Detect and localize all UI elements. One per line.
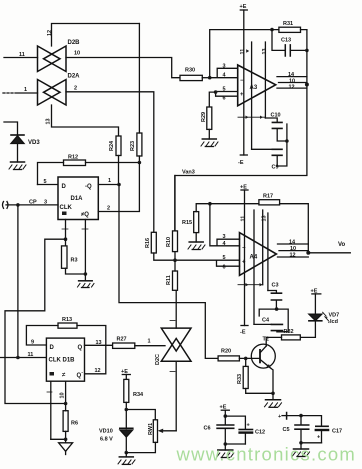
wire: R34 bottom xyxy=(125,402,127,409)
svg-text:R13: R13 xyxy=(62,317,72,323)
wire: A3 input pins 3/4 bracket xyxy=(210,68,238,77)
svg-text:R27: R27 xyxy=(117,337,127,343)
wire: A3 output rail down, across, and up to R10 (Van3 net) xyxy=(175,30,307,231)
wire: stub above join xyxy=(286,124,288,141)
wire: R12 net (to D pin of D1A and to R23 bottom) xyxy=(38,163,140,185)
wire: R13 loop from Q-bar 12 to D pin 9 of D1B xyxy=(26,326,105,374)
svg-text:C6: C6 xyxy=(204,426,211,432)
ground (VD10) xyxy=(118,453,135,465)
wire: R27 to D2C control xyxy=(135,345,165,347)
svg-text:C13: C13 xyxy=(281,38,291,44)
capacitor C6 xyxy=(204,416,234,444)
wire: R33 leads to emitter node xyxy=(246,358,273,393)
wire: T2 emitter down xyxy=(272,369,273,393)
svg-text:10: 10 xyxy=(74,51,80,57)
wire: R15 from feedback node xyxy=(196,204,210,242)
svg-text:Van3: Van3 xyxy=(182,170,195,176)
svg-text:11: 11 xyxy=(240,49,246,55)
resistor R27 xyxy=(113,337,135,349)
resistor R29 xyxy=(201,107,212,129)
ground (D1A reset) xyxy=(78,274,95,288)
arrow marks on A4 power pins xyxy=(238,284,263,286)
svg-text:12: 12 xyxy=(289,85,295,91)
wire: VD3 to ground xyxy=(17,144,19,163)
svg-text:C10: C10 xyxy=(271,113,281,119)
node: R34/VD10/RW1 junction xyxy=(125,408,129,412)
wire: A4 feedback down to inverting input xyxy=(210,204,217,246)
svg-text:-E: -E xyxy=(240,330,246,336)
wire: D input of D1A xyxy=(38,184,59,186)
svg-text:+: + xyxy=(317,435,320,441)
capacitor C9 xyxy=(252,141,287,171)
ground (R29) xyxy=(201,139,218,147)
node: R3 top junction xyxy=(64,237,68,241)
resistor R31 xyxy=(279,21,301,32)
op-amp A4 power rail +E xyxy=(240,185,248,326)
svg-text:14: 14 xyxy=(288,72,295,78)
node: C3/C4 join xyxy=(275,307,279,311)
node: R23/R12/Q2 junction xyxy=(138,161,142,165)
svg-text:CLK D1B: CLK D1B xyxy=(49,358,76,364)
ground (R15) xyxy=(188,242,205,250)
svg-text:11: 11 xyxy=(28,352,34,358)
potentiometer RW1 xyxy=(126,410,176,453)
wire: to R29 xyxy=(209,92,215,107)
terminal CP input xyxy=(3,202,9,209)
flip-flop D1B xyxy=(46,338,84,381)
svg-text:R32: R32 xyxy=(284,329,294,335)
wire: C5/C17 bottom join xyxy=(301,442,322,444)
capacitor C10 xyxy=(265,113,287,142)
terminal +E (C5/C17) xyxy=(278,413,287,421)
wire: D2B control pin 12 up and right to R23 xyxy=(52,24,140,47)
svg-text:6: 6 xyxy=(223,265,226,271)
resistor R34 xyxy=(124,375,144,403)
svg-text:R15: R15 xyxy=(182,220,192,226)
wire: R31 leads xyxy=(272,29,307,31)
pin tick 3 xyxy=(170,371,175,373)
resistor R24 xyxy=(109,136,121,156)
svg-text:D: D xyxy=(50,345,55,351)
svg-text:11: 11 xyxy=(19,52,25,58)
resistor R17 xyxy=(259,194,280,205)
node: Q1 junction with R24 xyxy=(117,183,121,187)
svg-text:10: 10 xyxy=(290,246,296,252)
resistor R12 xyxy=(64,155,86,166)
wire: D2C bottom to RW1 wiper xyxy=(175,361,177,431)
svg-text:9: 9 xyxy=(31,340,34,346)
svg-text:+: + xyxy=(242,260,246,266)
flip-flop D1A xyxy=(58,177,98,220)
wire: D1A reset pin stub xyxy=(84,220,86,275)
wire: A4 outputs 14/10/12 xyxy=(278,244,309,257)
svg-text:−: − xyxy=(240,78,244,84)
svg-text:R6: R6 xyxy=(71,421,78,427)
op-amp A4 xyxy=(240,233,277,276)
analog switch D2A xyxy=(38,74,81,106)
svg-text:C9: C9 xyxy=(272,165,279,171)
capacitor C13 xyxy=(272,30,307,56)
node: bottom join xyxy=(299,441,303,445)
capacitor C17 (electrolytic) xyxy=(316,426,342,443)
wire: D2A control pin 13 down then right to R24 xyxy=(52,105,119,136)
resistor R16 xyxy=(145,232,156,253)
svg-text:VD3: VD3 xyxy=(28,140,40,146)
capacitor C5 xyxy=(283,416,309,443)
wire: R6 leads xyxy=(51,404,66,440)
node: CP rail to CLK11 xyxy=(16,356,20,360)
wire: R24 lead down to Q1 node xyxy=(118,156,120,185)
node: A3 output join xyxy=(305,83,309,87)
svg-text:-Q: -Q xyxy=(85,184,92,190)
svg-text:CP: CP xyxy=(29,200,37,206)
resistor R20 xyxy=(218,349,239,361)
svg-text:R29: R29 xyxy=(201,112,207,122)
wire: A3 outputs 14/10/12 xyxy=(277,77,307,89)
svg-text:R24: R24 xyxy=(109,140,115,151)
svg-text:3: 3 xyxy=(223,64,226,70)
wire: VD7 to R32 xyxy=(300,321,315,338)
wire: set-node loop to D1B section xyxy=(5,239,66,403)
svg-text:T2: T2 xyxy=(263,337,269,343)
node: R3/reset ground junction xyxy=(84,272,88,276)
svg-text:10: 10 xyxy=(289,78,295,84)
capacitor C12 (electrolytic) xyxy=(239,423,265,445)
node: VD10 bottom xyxy=(125,451,129,455)
svg-text:3: 3 xyxy=(44,200,47,206)
svg-text:+: + xyxy=(247,423,250,429)
svg-text:13: 13 xyxy=(96,340,102,346)
diode VD3 xyxy=(11,135,40,146)
svg-text:1: 1 xyxy=(24,87,27,93)
svg-text:www.cntronics.com: www.cntronics.com xyxy=(176,444,357,465)
wire: D1A Q-bar pin 2 to R23 node xyxy=(98,163,139,212)
node: C13 right on output rail xyxy=(305,49,309,53)
wire: A3 feedback from node up and right xyxy=(210,30,272,78)
node: emitter/ground xyxy=(271,392,275,396)
node: R31/C13 left xyxy=(270,28,274,32)
wire: D1A Q pin 1 output xyxy=(98,184,119,186)
svg-text:−: − xyxy=(242,246,246,252)
wire: D1B reset stub xyxy=(65,381,67,403)
wire: terminal to caps xyxy=(287,415,301,417)
svg-text:D2B: D2B xyxy=(68,40,81,46)
wire: R30 to inverting input node xyxy=(202,77,209,79)
node: C10/C9 join xyxy=(285,139,289,143)
svg-text:10: 10 xyxy=(60,392,66,398)
svg-text:12: 12 xyxy=(47,30,53,36)
svg-text:C3: C3 xyxy=(272,283,279,289)
svg-text:A3: A3 xyxy=(250,85,258,91)
node: CP rail junction xyxy=(16,203,20,207)
svg-text:13: 13 xyxy=(46,118,52,124)
svg-text:Qˊ: Qˊ xyxy=(77,373,84,379)
node: R6 bottom xyxy=(64,438,68,442)
op-amp A3 xyxy=(238,65,276,106)
wire: A4 input pins 5/6 bracket xyxy=(217,260,240,266)
wire: D2C top to R11 xyxy=(175,290,177,328)
op-amp A3 power pin lines xyxy=(252,42,266,149)
capacitor C4 xyxy=(254,309,288,332)
svg-text:1: 1 xyxy=(108,178,111,184)
resistor R10 xyxy=(166,231,178,252)
wire: D1B Q pin 13 to R27 xyxy=(85,344,113,346)
capacitor C3 xyxy=(268,283,282,310)
svg-text:R30: R30 xyxy=(185,68,195,74)
ground (T2 emitter) xyxy=(265,393,282,407)
wire: CP rail down to D1B CLK xyxy=(17,205,19,358)
op-amp A4 power pin lines xyxy=(254,210,268,324)
svg-text:D1A: D1A xyxy=(71,196,84,202)
svg-text:C17: C17 xyxy=(332,429,342,435)
node: C5 top xyxy=(299,414,303,418)
svg-text:Q: Q xyxy=(78,345,83,351)
svg-text:2: 2 xyxy=(107,206,110,212)
svg-text:13: 13 xyxy=(262,48,268,54)
svg-text:≠Q: ≠Q xyxy=(81,212,89,218)
resistor R23 xyxy=(130,133,142,156)
node: bottom join xyxy=(224,442,228,446)
resistor R13 xyxy=(58,317,77,328)
svg-text:Icd: Icd xyxy=(330,319,338,325)
svg-text:5: 5 xyxy=(223,255,226,261)
terminal +E (C6/C12) xyxy=(220,405,230,411)
svg-text:1: 1 xyxy=(148,339,151,345)
wire: input pin 1 lead to D2A (dashed at left) xyxy=(3,92,15,94)
svg-text:R3: R3 xyxy=(71,258,78,264)
svg-text:5: 5 xyxy=(44,179,47,185)
analog switch D2B xyxy=(38,40,81,72)
resistor R3 xyxy=(62,246,78,268)
svg-text:R11: R11 xyxy=(166,275,172,285)
wire: CLK pin 11 of D1B xyxy=(0,357,46,359)
pin tick marks xyxy=(62,228,88,230)
node: A4 output join xyxy=(306,251,310,255)
resistor R11 xyxy=(166,271,178,290)
ground (VD3) xyxy=(9,162,26,170)
wire: R16 bottom to A4 +input rail xyxy=(154,253,217,260)
wire: R29 to ground xyxy=(208,129,210,139)
wire: R3 leads to ground node xyxy=(66,239,86,274)
svg-text:VD7: VD7 xyxy=(329,313,340,319)
svg-text:12: 12 xyxy=(290,253,296,259)
wire: Q1 route down and across to R20 xyxy=(119,185,218,359)
wire: C6/C12 bottom join xyxy=(225,443,245,445)
wire: D1A set pin stub xyxy=(65,220,67,240)
wire: CP to CLK pin 3 of D1A xyxy=(6,204,58,206)
node: C6/C12 top xyxy=(224,414,228,418)
resistor R30 xyxy=(180,68,202,81)
wire: R32 to T2 collector xyxy=(266,337,281,346)
svg-text:5: 5 xyxy=(223,87,226,93)
wire: +E to caps xyxy=(224,410,226,416)
pin tick 4 xyxy=(170,320,175,322)
resistor R33 xyxy=(237,366,248,388)
wire: R11 top lead xyxy=(174,260,176,271)
wire: D2B pin 10 output to R30 xyxy=(66,58,180,78)
svg-text:R33: R33 xyxy=(237,374,243,384)
wire: R10 leads xyxy=(174,176,176,261)
svg-text:R23: R23 xyxy=(130,141,136,151)
wire: Vo output xyxy=(308,252,350,254)
svg-text:6.8 V: 6.8 V xyxy=(100,437,113,443)
terminal +E (VD7) xyxy=(311,289,321,295)
wire: A4 feedback wire to output rail xyxy=(210,204,308,253)
svg-text:R34: R34 xyxy=(133,392,144,398)
svg-text:C4: C4 xyxy=(262,318,270,324)
svg-text:6: 6 xyxy=(223,96,226,102)
terminal +E (R34) xyxy=(121,369,130,375)
svg-text:D: D xyxy=(62,184,67,190)
svg-text:C5: C5 xyxy=(283,427,290,433)
wire: A3 input pins 5/6 bracket xyxy=(216,92,238,97)
svg-text:+E: +E xyxy=(240,4,247,10)
transistor T2 xyxy=(251,337,275,369)
svg-text:R20: R20 xyxy=(221,349,231,355)
svg-text:R10: R10 xyxy=(166,237,172,247)
wire: stub left of join xyxy=(259,309,276,316)
ground (R6, triangle style) xyxy=(59,439,73,454)
svg-text:R16: R16 xyxy=(145,238,151,248)
svg-text:R31: R31 xyxy=(283,21,293,27)
label -E (A4) xyxy=(240,326,248,336)
LED VD7 xyxy=(309,294,339,325)
label -E (A3) xyxy=(238,155,247,166)
arrow marks on A3 power pins xyxy=(238,116,265,118)
svg-text:D2A: D2A xyxy=(68,74,81,80)
ground (C6/C12) xyxy=(217,444,234,458)
svg-text:-E: -E xyxy=(238,160,244,166)
resistor R15 xyxy=(182,212,199,233)
op-amp A3 power rail +E xyxy=(240,4,248,155)
resistor R32 xyxy=(282,329,301,340)
wire: input pin 11 lead to D2B xyxy=(4,57,38,59)
svg-text:+: + xyxy=(240,92,244,98)
node: +input junction xyxy=(173,258,177,262)
resistor R6 xyxy=(63,411,78,432)
wire: stub to diode VD3 xyxy=(4,122,18,135)
wire: R23 leads xyxy=(138,24,140,163)
wire: D1B set stub down xyxy=(50,381,52,439)
svg-text:D2C: D2C xyxy=(155,354,161,365)
svg-text:11: 11 xyxy=(241,216,247,222)
svg-text:12: 12 xyxy=(95,368,101,374)
svg-text:+: + xyxy=(278,414,281,420)
svg-text:Vo: Vo xyxy=(338,242,346,248)
wire: R20 to T2 base xyxy=(239,357,260,359)
svg-text:13: 13 xyxy=(262,215,268,221)
svg-text:R12: R12 xyxy=(68,155,78,161)
ground (C5/C17) xyxy=(293,443,310,457)
svg-text:C12: C12 xyxy=(255,430,265,436)
svg-text:3: 3 xyxy=(223,234,226,240)
svg-text:RW1: RW1 xyxy=(148,423,154,435)
analog switch D2C (vertical) xyxy=(155,328,191,365)
wire: D2A pin 2 output right then down to R16 xyxy=(66,92,154,233)
node: A4 feedback node xyxy=(208,202,212,206)
zener VD10 xyxy=(99,410,133,453)
svg-text:2: 2 xyxy=(74,86,77,92)
node: R20/R33 junction xyxy=(244,357,248,361)
pin tick xyxy=(47,391,52,393)
svg-text:CLK: CLK xyxy=(60,205,73,211)
svg-text:VD10: VD10 xyxy=(99,429,113,435)
wire: A4 input pins 3/4 bracket xyxy=(217,239,240,246)
svg-text:R17: R17 xyxy=(263,194,273,200)
svg-text:A4: A4 xyxy=(250,255,258,261)
svg-text:14: 14 xyxy=(289,240,296,246)
node: A3 inverting input xyxy=(208,76,212,80)
node: +input to R29 xyxy=(214,90,218,94)
node: reset/R6 junction xyxy=(64,402,68,406)
